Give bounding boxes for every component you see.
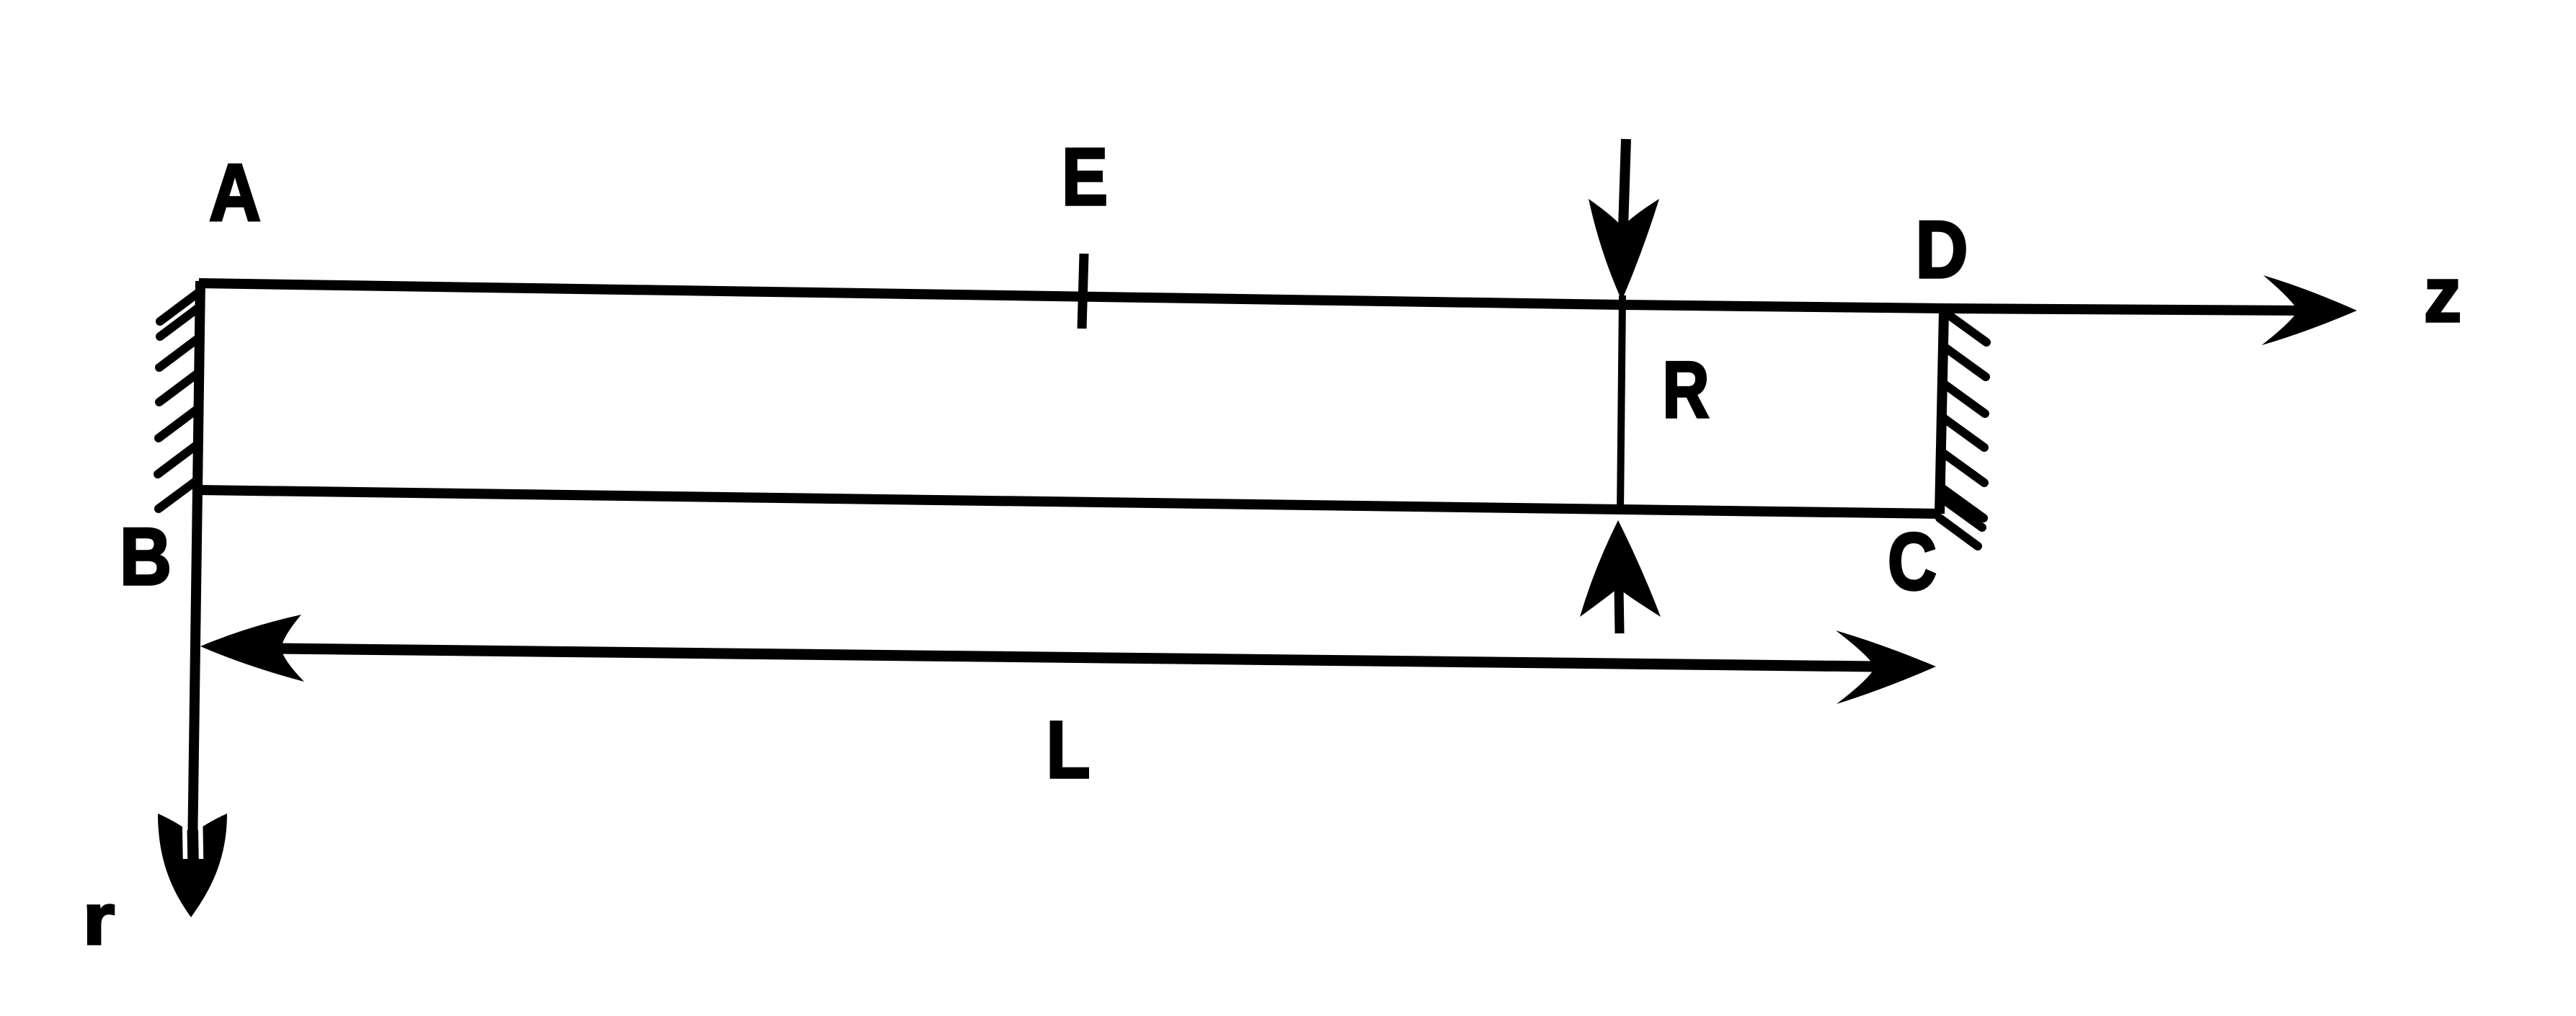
- svg-text:R: R: [1663, 346, 1710, 435]
- beam lower edge B-C: [199, 490, 1940, 514]
- svg-text:E: E: [1062, 132, 1108, 222]
- label z: [2424, 251, 2461, 338]
- svg-text:r: r: [83, 879, 115, 960]
- svg-text:C: C: [1888, 517, 1937, 607]
- label R: [1663, 346, 1710, 435]
- label E: [1062, 132, 1108, 222]
- label C: [1888, 517, 1937, 607]
- svg-text:D: D: [1916, 205, 1968, 295]
- left wall hatching: [158, 291, 200, 509]
- svg-text:L: L: [1047, 705, 1091, 795]
- right wall hatching: [1940, 312, 1986, 546]
- label L: [1047, 705, 1091, 795]
- r axis arrowhead: [158, 814, 227, 917]
- svg-text:z: z: [2424, 251, 2461, 338]
- label B: [120, 512, 172, 602]
- load R down arrowhead: [1589, 199, 1659, 300]
- z axis arrowhead: [2262, 275, 2357, 345]
- dimension right arrowhead: [1836, 630, 1936, 704]
- dimension left arrowhead: [200, 615, 304, 682]
- reaction R up arrowhead: [1580, 520, 1661, 617]
- load R internal line: [1620, 295, 1622, 512]
- svg-text:A: A: [209, 148, 261, 238]
- label A: [209, 148, 261, 238]
- reaction R up arrow shaft: [1619, 587, 1620, 633]
- dimension line L: [280, 649, 1875, 667]
- right wall vertical line D-C: [1940, 311, 1944, 514]
- label r: [83, 879, 115, 960]
- label D: [1916, 205, 1968, 295]
- left wall / r axis vertical line: [192, 281, 200, 854]
- beam top edge / z axis line A-D-z: [199, 283, 2310, 311]
- svg-text:B: B: [120, 512, 172, 602]
- E tick mark: [1082, 254, 1084, 329]
- load R down arrow shaft: [1623, 139, 1626, 228]
